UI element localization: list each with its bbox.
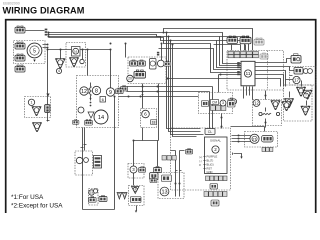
main dashed box <box>77 76 119 128</box>
circle 22 <box>80 87 88 95</box>
svg-text:1: 1 <box>31 101 33 105</box>
wire cdi right1 <box>256 59 292 63</box>
relay conn row <box>211 106 216 111</box>
circle 20 <box>127 75 134 82</box>
horn icon <box>139 167 146 172</box>
relay icon CM <box>211 100 219 105</box>
circle 8 <box>92 86 100 94</box>
wire r12 vert <box>265 91 267 128</box>
wire cdi right5 <box>256 79 281 87</box>
wire bus4 <box>49 38 242 73</box>
below CDI icons <box>228 98 235 103</box>
wire y95 long <box>119 96 199 98</box>
icon right of horn <box>150 173 159 180</box>
wire y28 jog <box>164 29 253 51</box>
circle 19b <box>93 189 97 193</box>
ignition side grid icon <box>164 61 171 66</box>
ignition cylinder <box>150 59 157 70</box>
connector gray C <box>254 38 264 45</box>
bulb right c <box>285 98 294 108</box>
bulb pair a <box>271 100 280 110</box>
svg-text:5: 5 <box>33 49 36 55</box>
svg-text:12: 12 <box>81 89 87 95</box>
svg-text:BL(G): BL(G) <box>207 163 214 167</box>
wire right stubs <box>290 76 307 106</box>
svg-text:12: 12 <box>254 101 259 106</box>
battery icon <box>94 156 102 169</box>
wire bus2 <box>49 35 242 66</box>
box bottom icon b <box>85 120 93 126</box>
wire bottom vert arrows <box>136 206 138 211</box>
circle in 16 <box>142 110 150 118</box>
small circle right <box>80 59 84 63</box>
small circle under bulb <box>56 68 61 73</box>
svg-text:*2:Except for USA: *2:Except for USA <box>11 203 63 210</box>
circle 1 <box>28 99 34 105</box>
wire 21 pins <box>238 135 240 137</box>
grid icon bottom left <box>99 196 107 202</box>
svg-text:16: 16 <box>74 49 78 53</box>
magneto dashed box <box>14 41 46 64</box>
wire meter right <box>234 154 242 157</box>
starter motor circle 14 <box>94 110 108 124</box>
svg-text:18: 18 <box>152 121 156 125</box>
CDI gray conn right <box>260 53 268 59</box>
wire cdi vert <box>219 75 242 93</box>
wire net3 <box>171 41 245 135</box>
CDI left pin marks <box>237 62 240 64</box>
relay12 dashed box <box>253 100 282 126</box>
horn circle 3 <box>130 166 137 173</box>
CDI connector row 2 <box>228 55 234 58</box>
wire y49 <box>48 50 111 89</box>
relay dashed box <box>199 93 233 114</box>
meter icon mid <box>210 184 218 190</box>
wire 21 feed <box>231 127 265 142</box>
meter left pin marks <box>204 157 206 169</box>
junction fuse <box>133 140 135 142</box>
wire left conn stubs <box>26 31 48 48</box>
relay icon right <box>228 101 236 108</box>
left small circle <box>78 107 84 113</box>
svg-text:6: 6 <box>144 112 147 118</box>
svg-text:3: 3 <box>222 101 224 105</box>
circle 9 <box>106 88 114 96</box>
CDI inner dashed partition <box>267 51 269 91</box>
svg-text:(-): (-) <box>199 159 202 163</box>
meter unit box <box>205 137 228 174</box>
junction y86 <box>142 86 144 88</box>
junction y78 <box>167 78 169 80</box>
meter conn row1 <box>206 176 210 181</box>
CL box <box>205 129 215 135</box>
wire batt ticks <box>81 145 87 148</box>
svg-text:SIGNAL: SIGNAL <box>210 139 221 143</box>
svg-text:13: 13 <box>161 189 167 195</box>
terminal dots <box>90 98 92 100</box>
bulb symbol 15 <box>56 58 65 68</box>
svg-text:WIRING DIAGRAM: WIRING DIAGRAM <box>3 5 85 15</box>
svg-text:RST: RST <box>207 167 213 171</box>
svg-text:14: 14 <box>98 115 104 121</box>
wire net4 <box>173 45 241 137</box>
svg-text:20: 20 <box>128 77 132 81</box>
circle 21 <box>250 134 259 143</box>
wire cdi top stubs <box>232 45 246 51</box>
wire meter verticals <box>127 87 213 129</box>
ignition dashed box <box>128 57 166 84</box>
13 pin arrows <box>176 170 182 172</box>
wire feed drops <box>126 44 162 61</box>
ignition coil circle <box>157 60 164 67</box>
fuse box 6 <box>100 97 106 103</box>
grid icon right of 9 <box>116 88 124 94</box>
wire cdi right4 <box>256 75 284 87</box>
wire bus1 <box>49 33 242 64</box>
bulb 7a <box>297 87 306 97</box>
connector pair B <box>240 36 251 44</box>
wire net1 <box>167 33 201 129</box>
ignition grid pair <box>134 70 146 78</box>
ignition connector B <box>138 60 146 66</box>
circle 17 <box>293 76 300 83</box>
svg-text:17: 17 <box>294 78 300 83</box>
13 dashed box <box>158 173 184 199</box>
double bulb icon <box>117 193 127 200</box>
bulb 7b <box>303 90 312 100</box>
wire net2 <box>169 37 249 132</box>
meter outer dashed box <box>171 128 231 190</box>
icon 18 <box>151 120 157 125</box>
wire batt verts <box>83 128 85 210</box>
relay circle 3 <box>220 100 226 106</box>
junction x114 <box>114 96 116 98</box>
svg-text:CM: CM <box>212 100 217 104</box>
wire meter down1 <box>176 151 180 197</box>
svg-text:11: 11 <box>246 71 251 76</box>
jog dot <box>163 32 165 34</box>
wire ign feed y48 <box>159 49 242 70</box>
bulb 4 <box>132 187 140 194</box>
dashed box 21 <box>245 132 278 148</box>
svg-text:*1:For USA: *1:For USA <box>11 194 44 201</box>
battery circles <box>76 157 82 163</box>
meter circle 2 <box>212 146 219 153</box>
svg-text:8: 8 <box>95 88 98 94</box>
small triangle left <box>88 112 94 118</box>
coil component <box>89 86 91 96</box>
D1 connector <box>291 56 301 64</box>
CDI unit 11 <box>241 61 255 86</box>
wire tri stubs <box>61 50 83 60</box>
junction r12 <box>265 95 267 97</box>
BkW icon <box>162 175 172 182</box>
junction dots y49 <box>47 49 49 51</box>
wire x87 drop <box>87 50 89 76</box>
wire y78 long <box>168 78 242 80</box>
19 grid icon <box>89 197 97 203</box>
junction dots left <box>47 44 49 46</box>
19 dashed box <box>89 189 99 206</box>
circle 13 <box>160 187 169 196</box>
circle 12 below CDI <box>253 100 260 107</box>
wire meter down stub <box>171 150 185 152</box>
svg-text:4: 4 <box>58 69 60 73</box>
bulb right d <box>301 106 310 116</box>
bulb below neutral <box>33 122 42 132</box>
junction relay <box>221 117 223 119</box>
CDI connector row 1 <box>228 52 234 55</box>
wire x114 vert <box>114 97 116 210</box>
bulb pair b <box>282 101 291 111</box>
svg-text:CL: CL <box>208 130 213 134</box>
svg-text:PURPLE: PURPLE <box>207 155 218 159</box>
resistor component <box>262 113 271 115</box>
meter conn row2 <box>204 192 208 197</box>
bulb neutral <box>32 106 41 116</box>
meter icon bottom <box>211 200 219 206</box>
CDI dashed box <box>227 51 284 91</box>
bulb in box 10 <box>70 57 79 67</box>
connector below magneto box <box>15 65 25 72</box>
conn below 21 <box>262 148 265 152</box>
conn row y156 <box>162 156 166 161</box>
box 16 dashed <box>141 109 157 128</box>
connector in magneto box bottom <box>15 54 25 61</box>
bottom dashed box 4 <box>129 186 145 206</box>
horn dashed box <box>128 164 144 179</box>
svg-text:9: 9 <box>109 90 112 96</box>
terminal pair <box>45 105 51 113</box>
wire fuse drop <box>134 84 159 186</box>
white box 16 in db2 <box>72 47 81 57</box>
grid icon x150 <box>150 178 157 183</box>
grid icon meter top <box>186 149 193 154</box>
grid icon right A <box>294 68 303 75</box>
wire bus3 <box>49 37 242 68</box>
wire relay drop <box>221 114 223 129</box>
circle pair right B <box>303 69 308 74</box>
connector in magneto box top <box>15 42 25 49</box>
circle 19 <box>89 190 94 195</box>
wire cdi right2 <box>256 67 295 71</box>
right cluster dashed box <box>284 85 313 121</box>
svg-text:BL(T): BL(T) <box>207 159 214 163</box>
svg-text:R: R <box>199 163 201 167</box>
conn 3pin in 21 <box>262 136 274 143</box>
svg-text:GND: GND <box>207 170 213 174</box>
net junction dots <box>166 32 168 34</box>
battery dashed box <box>75 151 93 175</box>
wire horn bottom <box>83 209 115 211</box>
wire cdi bottom pins <box>244 87 253 100</box>
conn below 4 <box>131 197 142 203</box>
svg-text:19: 19 <box>90 191 94 195</box>
line terminator icon <box>121 86 128 91</box>
box bottom icon a <box>73 120 79 125</box>
junction y95 <box>128 96 130 98</box>
neutral dashed box <box>25 97 51 118</box>
relay icon a <box>202 101 209 107</box>
connector above magneto box <box>15 26 25 33</box>
svg-text:(+): (+) <box>199 155 202 159</box>
ignition connector A <box>130 60 138 66</box>
wire vert x47 <box>47 50 49 122</box>
grid icon left13 <box>154 167 162 173</box>
AC magneto circle 5 <box>27 43 42 58</box>
dashed box 17 <box>290 67 317 86</box>
connector pair A <box>227 36 238 43</box>
dashed box 10 <box>66 43 86 68</box>
wire cdi right3 <box>256 71 293 87</box>
svg-text:21: 21 <box>252 136 257 141</box>
